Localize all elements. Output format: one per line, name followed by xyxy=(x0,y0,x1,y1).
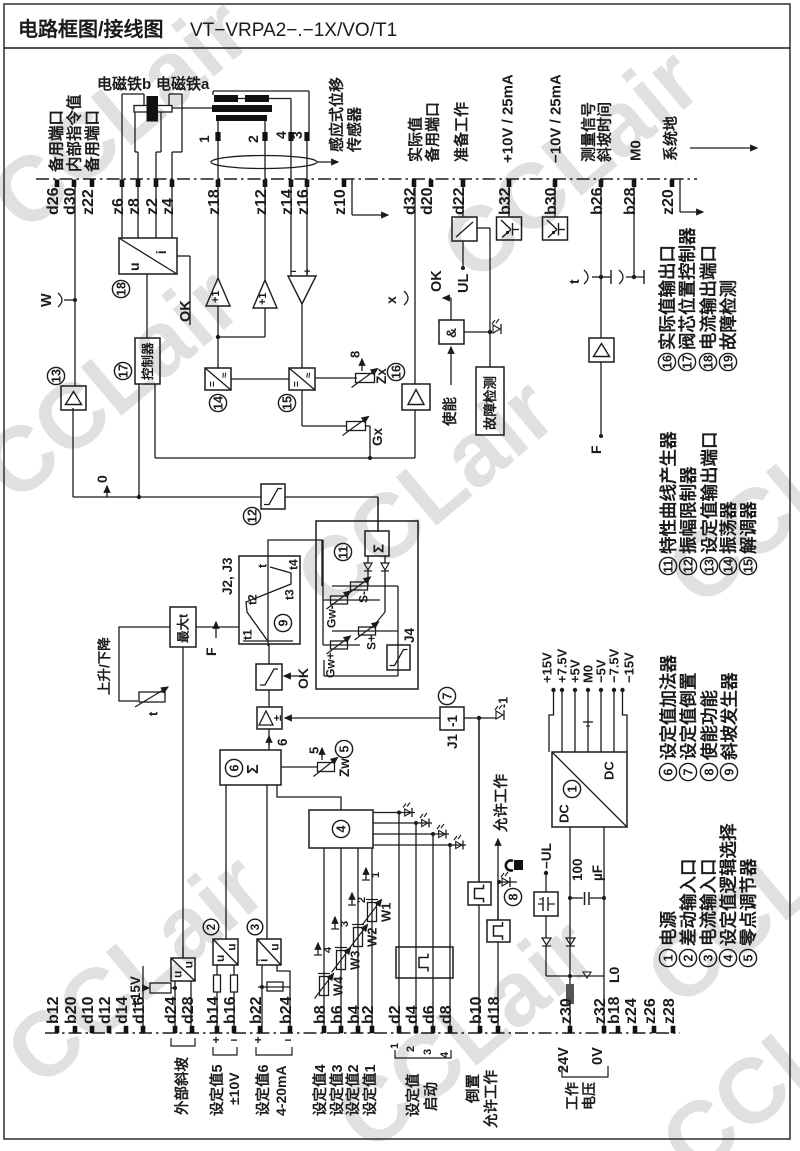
svg-text:b6: b6 xyxy=(329,1005,346,1024)
svg-text:z8: z8 xyxy=(126,198,143,215)
svg-text:3: 3 xyxy=(339,921,351,927)
svg-text:+: + xyxy=(254,1033,261,1047)
svg-text:M0: M0 xyxy=(627,140,644,161)
svg-text:控制器: 控制器 xyxy=(140,342,155,380)
svg-text:使能: 使能 xyxy=(441,397,459,427)
svg-text:d30: d30 xyxy=(62,187,79,215)
svg-text:d4: d4 xyxy=(404,1005,421,1024)
svg-text:OK: OK xyxy=(178,300,194,322)
svg-text:z18: z18 xyxy=(206,189,223,215)
svg-text:允许工作: 允许工作 xyxy=(492,774,510,833)
svg-text:2: 2 xyxy=(356,897,368,903)
svg-text:24V: 24V xyxy=(556,1047,572,1073)
svg-text:设定值输出端口: 设定值输出端口 xyxy=(699,432,719,555)
svg-text:实际值: 实际值 xyxy=(406,117,424,162)
svg-text:8: 8 xyxy=(507,894,521,901)
svg-text:z30: z30 xyxy=(558,998,575,1024)
svg-text:t: t xyxy=(566,279,582,284)
svg-text:z24: z24 xyxy=(623,998,640,1024)
svg-text:+1: +1 xyxy=(257,292,269,305)
svg-text:z22: z22 xyxy=(80,189,97,215)
svg-text:解调器: 解调器 xyxy=(738,501,758,554)
svg-text:电磁铁b: 电磁铁b xyxy=(97,75,151,93)
svg-text:b10: b10 xyxy=(468,996,485,1024)
svg-text:OK: OK xyxy=(429,270,445,292)
svg-text:d2: d2 xyxy=(387,1005,404,1024)
svg-text:4: 4 xyxy=(439,1051,451,1058)
svg-text:b22: b22 xyxy=(248,996,265,1024)
svg-text:+1: +1 xyxy=(210,290,222,303)
svg-text:d16: d16 xyxy=(131,996,148,1024)
svg-text:d28: d28 xyxy=(180,996,197,1024)
svg-text:z20: z20 xyxy=(660,189,677,215)
svg-text:d6: d6 xyxy=(421,1005,438,1024)
svg-text:6: 6 xyxy=(275,738,290,746)
svg-text:d32: d32 xyxy=(402,187,419,215)
svg-text:d10: d10 xyxy=(80,996,97,1024)
svg-text:b14: b14 xyxy=(205,996,222,1024)
svg-text:3: 3 xyxy=(250,924,262,930)
svg-text:电流输入口: 电流输入口 xyxy=(698,859,718,947)
svg-text:3: 3 xyxy=(702,955,716,962)
svg-text:+: + xyxy=(304,266,310,278)
svg-text:备用端口: 备用端口 xyxy=(423,102,441,163)
svg-text:−: − xyxy=(230,1033,237,1047)
svg-text:设定值2: 设定值2 xyxy=(344,1064,362,1116)
svg-text:8: 8 xyxy=(703,769,717,776)
svg-text:b8: b8 xyxy=(312,1005,329,1024)
svg-text:t2: t2 xyxy=(245,594,259,605)
svg-text:W: W xyxy=(39,293,55,307)
svg-text:F: F xyxy=(203,647,219,656)
svg-text:3: 3 xyxy=(422,1049,434,1055)
svg-text:+15V: +15V xyxy=(540,652,555,683)
svg-text:14: 14 xyxy=(212,396,226,410)
svg-text:设定值5: 设定值5 xyxy=(208,1064,226,1116)
svg-text:L0: L0 xyxy=(606,966,622,983)
svg-text:斜坡时间: 斜坡时间 xyxy=(595,102,613,163)
svg-text:7: 7 xyxy=(441,693,455,700)
svg-text:振幅限制器: 振幅限制器 xyxy=(678,466,698,554)
svg-text:2: 2 xyxy=(682,955,696,962)
svg-text:≈: ≈ xyxy=(219,372,230,378)
svg-text:测量信号: 测量信号 xyxy=(579,102,597,162)
svg-text:备用端口: 备用端口 xyxy=(83,110,102,173)
svg-text:最大t: 最大t xyxy=(176,613,191,643)
svg-text:2: 2 xyxy=(405,1046,417,1052)
svg-text:z10: z10 xyxy=(332,189,349,215)
svg-text:1: 1 xyxy=(662,955,676,962)
svg-text:−7.5V: −7.5V xyxy=(607,648,622,683)
svg-text:+10V / 25mA: +10V / 25mA xyxy=(499,74,516,163)
svg-text:准备工作: 准备工作 xyxy=(452,102,470,162)
svg-text:内部指令值: 内部指令值 xyxy=(65,94,84,172)
svg-text:零点调节器: 零点调节器 xyxy=(738,858,758,947)
svg-text:17: 17 xyxy=(681,355,695,369)
svg-text:u: u xyxy=(213,955,227,962)
svg-text:使能功能: 使能功能 xyxy=(699,690,719,761)
svg-text:OK: OK xyxy=(295,668,311,689)
svg-text:±10V: ±10V xyxy=(226,1072,242,1105)
svg-text:斜坡发生器: 斜坡发生器 xyxy=(719,672,739,761)
svg-text:电源: 电源 xyxy=(658,911,678,946)
svg-text:4: 4 xyxy=(335,826,349,833)
svg-text:15: 15 xyxy=(742,559,756,573)
svg-text:差动输入口: 差动输入口 xyxy=(678,859,698,947)
svg-text:11: 11 xyxy=(662,560,676,573)
svg-text:d12: d12 xyxy=(97,996,114,1024)
svg-text:实际值输出口: 实际值输出口 xyxy=(657,245,677,350)
svg-text:15: 15 xyxy=(281,396,295,410)
svg-text:5: 5 xyxy=(338,746,352,753)
svg-text:6: 6 xyxy=(228,765,242,772)
svg-text:16: 16 xyxy=(390,365,404,379)
svg-text:S-: S- xyxy=(356,591,370,603)
svg-text:阀芯位置控制器: 阀芯位置控制器 xyxy=(677,227,697,350)
svg-text:18: 18 xyxy=(702,355,716,369)
svg-text:DC: DC xyxy=(602,761,617,780)
svg-text:5: 5 xyxy=(307,747,322,754)
svg-text:z6: z6 xyxy=(110,198,127,215)
svg-text:13: 13 xyxy=(50,369,64,383)
svg-text:z2: z2 xyxy=(144,198,161,215)
svg-text:−10V / 25mA: −10V / 25mA xyxy=(547,74,564,163)
svg-text:1: 1 xyxy=(370,872,382,878)
svg-text:电压: 电压 xyxy=(581,1082,597,1110)
svg-text:b16: b16 xyxy=(222,996,239,1024)
svg-text:设定值逻辑选择: 设定值逻辑选择 xyxy=(718,823,738,946)
svg-text:W4: W4 xyxy=(331,976,346,996)
svg-text:7: 7 xyxy=(682,769,696,776)
svg-text:2: 2 xyxy=(206,924,218,930)
svg-text:设定值: 设定值 xyxy=(404,1073,422,1117)
svg-text:t4: t4 xyxy=(286,559,300,570)
svg-text:z26: z26 xyxy=(642,998,659,1024)
svg-text:设定值3: 设定值3 xyxy=(328,1064,346,1116)
svg-text:设定值1: 设定值1 xyxy=(361,1064,379,1116)
svg-text:Gw-: Gw- xyxy=(324,605,338,628)
svg-text:u: u xyxy=(224,943,238,950)
svg-text:≈: ≈ xyxy=(303,372,314,378)
svg-text:-1: -1 xyxy=(445,715,460,727)
svg-text:b20: b20 xyxy=(63,996,80,1024)
svg-text:设定值加法器: 设定值加法器 xyxy=(658,655,678,760)
svg-text:传感器: 传感器 xyxy=(345,106,363,153)
svg-text:特性曲线产生器: 特性曲线产生器 xyxy=(658,431,678,554)
svg-text:x: x xyxy=(383,296,399,304)
svg-text:Zx: Zx xyxy=(374,368,389,384)
svg-text:1: 1 xyxy=(389,1043,401,1049)
svg-text:b24: b24 xyxy=(278,996,295,1024)
svg-text:d14: d14 xyxy=(114,996,131,1024)
svg-text:0V: 0V xyxy=(590,1047,606,1065)
svg-text:1: 1 xyxy=(196,135,212,143)
svg-text:18: 18 xyxy=(115,282,129,296)
svg-text:J1: J1 xyxy=(445,733,460,749)
svg-text:b28: b28 xyxy=(622,187,639,215)
svg-text:i: i xyxy=(153,250,169,254)
svg-text:17: 17 xyxy=(117,364,131,378)
svg-text:z14: z14 xyxy=(279,189,296,215)
svg-text:感应式位移: 感应式位移 xyxy=(327,77,345,152)
svg-text:t: t xyxy=(255,564,269,568)
svg-text:9: 9 xyxy=(277,620,291,627)
svg-text:启动: 启动 xyxy=(422,1082,440,1111)
svg-text:d8: d8 xyxy=(438,1005,455,1024)
svg-text:z12: z12 xyxy=(253,189,270,215)
svg-text:工作: 工作 xyxy=(564,1082,580,1110)
svg-text:±: ± xyxy=(272,715,284,721)
svg-text:z4: z4 xyxy=(160,198,177,215)
svg-text:9: 9 xyxy=(723,769,737,776)
svg-text:t3: t3 xyxy=(282,589,296,600)
svg-text:6: 6 xyxy=(662,769,676,776)
svg-text:电流输出端口: 电流输出端口 xyxy=(698,245,718,350)
svg-text:Gx: Gx xyxy=(370,427,385,446)
svg-text:13: 13 xyxy=(703,559,717,573)
svg-text:1: 1 xyxy=(566,786,580,793)
svg-text:16: 16 xyxy=(661,355,675,369)
svg-text:b26: b26 xyxy=(589,187,606,215)
svg-text:允许工作: 允许工作 xyxy=(482,1070,500,1129)
svg-text:u: u xyxy=(268,943,282,950)
svg-text:倒置: 倒置 xyxy=(464,1074,482,1104)
svg-text:−: − xyxy=(290,266,296,278)
svg-text:11: 11 xyxy=(337,546,351,559)
svg-text:d24: d24 xyxy=(163,996,180,1024)
svg-text:Zw: Zw xyxy=(337,758,352,777)
svg-text:12: 12 xyxy=(682,559,696,573)
svg-text:设定值倒置: 设定值倒置 xyxy=(678,673,698,761)
svg-text:VT−VRPA2−.−1X/VO/T1: VT−VRPA2−.−1X/VO/T1 xyxy=(190,20,397,41)
svg-text:4-20mA: 4-20mA xyxy=(273,1065,289,1116)
svg-text:u: u xyxy=(171,971,185,978)
svg-text:=: = xyxy=(291,381,302,387)
svg-text:电路框图/接线图: 电路框图/接线图 xyxy=(18,17,164,41)
svg-text:Σ: Σ xyxy=(245,764,262,774)
svg-text:备用端口: 备用端口 xyxy=(47,110,66,173)
svg-text:u: u xyxy=(182,961,196,968)
svg-text:W2: W2 xyxy=(365,928,380,948)
svg-text:b30: b30 xyxy=(543,187,560,215)
svg-text:100: 100 xyxy=(570,858,585,881)
svg-text:d18: d18 xyxy=(486,996,503,1024)
svg-text:&: & xyxy=(443,328,459,338)
svg-text:J2, J3: J2, J3 xyxy=(220,557,235,595)
svg-text:-1: -1 xyxy=(497,697,511,708)
svg-text:b18: b18 xyxy=(606,996,623,1024)
svg-text:i: i xyxy=(257,959,271,962)
svg-text:d22: d22 xyxy=(451,187,468,215)
svg-text:u: u xyxy=(126,262,142,271)
svg-text:b32: b32 xyxy=(497,187,514,215)
svg-text:Gw+: Gw+ xyxy=(323,652,337,678)
svg-text:设定值6: 设定值6 xyxy=(254,1064,272,1116)
svg-text:14: 14 xyxy=(722,559,736,573)
svg-text:t1: t1 xyxy=(240,629,254,640)
svg-text:DC: DC xyxy=(557,804,572,823)
svg-text:故障检测: 故障检测 xyxy=(718,280,738,350)
svg-text:−UL: −UL xyxy=(539,843,554,869)
svg-text:J4: J4 xyxy=(402,627,417,643)
svg-text:d26: d26 xyxy=(45,187,62,215)
svg-text:F: F xyxy=(588,445,604,454)
svg-text:3: 3 xyxy=(289,131,305,139)
svg-text:z28: z28 xyxy=(661,998,678,1024)
svg-text:W3: W3 xyxy=(348,951,363,971)
svg-text:+: + xyxy=(212,1033,219,1047)
svg-text:−: − xyxy=(284,1033,291,1047)
svg-text:S+: S+ xyxy=(364,635,378,650)
svg-text:4: 4 xyxy=(273,131,289,139)
svg-text:b12: b12 xyxy=(45,996,62,1024)
svg-text:−15V: −15V xyxy=(622,652,637,683)
svg-text:4: 4 xyxy=(322,946,334,953)
svg-text:12: 12 xyxy=(246,509,260,523)
svg-text:上升/下降: 上升/下降 xyxy=(96,637,112,695)
svg-text:故障检测: 故障检测 xyxy=(482,376,498,430)
svg-text:5: 5 xyxy=(742,955,756,962)
svg-text:UL: UL xyxy=(456,274,472,293)
svg-text:0: 0 xyxy=(94,475,110,483)
svg-text:b2: b2 xyxy=(360,1005,377,1024)
svg-text:振荡器: 振荡器 xyxy=(718,501,738,554)
svg-text:z16: z16 xyxy=(295,189,312,215)
svg-text:=: = xyxy=(207,381,218,387)
svg-text:2: 2 xyxy=(245,135,261,143)
svg-text:系统地: 系统地 xyxy=(661,116,679,161)
svg-text:W1: W1 xyxy=(379,903,394,923)
svg-text:外部斜坡: 外部斜坡 xyxy=(173,1057,191,1115)
svg-text:µF: µF xyxy=(590,865,605,881)
svg-text:Σ: Σ xyxy=(370,544,387,553)
svg-text:19: 19 xyxy=(722,355,736,369)
svg-text:电磁铁a: 电磁铁a xyxy=(156,75,210,93)
svg-text:t: t xyxy=(146,711,161,716)
svg-text:d20: d20 xyxy=(419,187,436,215)
svg-text:8: 8 xyxy=(348,351,363,358)
svg-text:设定值4: 设定值4 xyxy=(311,1064,329,1116)
svg-text:4: 4 xyxy=(722,955,736,962)
